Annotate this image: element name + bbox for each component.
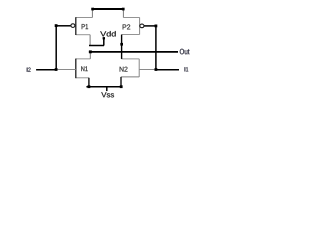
wire I2 input <box>36 69 57 71</box>
wire N2 source stem <box>120 77 122 87</box>
transistor P1 gate-side edge <box>75 17 77 35</box>
junction dot I1 <box>155 68 158 71</box>
P2 label <box>123 24 131 29</box>
wire N1 source stem <box>88 78 90 87</box>
wire Vdd bar <box>89 45 104 47</box>
node I1 label I-stem <box>183 67 186 71</box>
P1 label <box>82 24 88 29</box>
inversion bubble P1 <box>71 24 75 28</box>
transistor N2 drain-side edge <box>138 59 140 77</box>
node Out label <box>180 49 190 54</box>
wire Vdd stub <box>103 38 105 46</box>
junction dot top rail right <box>122 8 125 11</box>
junction dot I2 <box>55 68 58 71</box>
N1 label <box>81 66 87 71</box>
corner dot right top <box>155 25 158 28</box>
transistor P2 drain-side edge <box>139 17 141 34</box>
terminal dot Vdd <box>103 37 105 39</box>
transistor N1 body outline <box>76 59 91 78</box>
corner dot left top <box>55 24 58 27</box>
junction dot P2 drain <box>120 43 123 46</box>
node I2 label I-stem <box>26 68 29 72</box>
junction dot Vss left <box>88 85 91 88</box>
wire left vertical <box>55 26 57 70</box>
wire out rail <box>89 51 178 53</box>
wire I1 input <box>156 69 179 71</box>
P2 top stem <box>122 10 124 18</box>
wire Vss bar <box>86 86 122 88</box>
inversion bubble P2 <box>140 24 144 28</box>
transistor P1 body outline <box>76 17 93 34</box>
transistor N1 gate-side edge <box>75 59 77 79</box>
node I1 label <box>185 67 188 71</box>
wire top rail P1 to P2 <box>91 8 124 10</box>
P1 bottom stem <box>89 35 91 46</box>
Vdd label <box>100 31 115 36</box>
wire Vss stub <box>106 87 108 91</box>
transistor P2 body outline <box>122 17 140 34</box>
Vss label <box>101 92 114 97</box>
N1 gate stub <box>56 68 76 70</box>
wire right vertical <box>155 26 157 70</box>
N2 gate stub <box>139 69 156 71</box>
N1 top stem <box>89 52 91 59</box>
wire P1 gate <box>56 25 71 27</box>
P1 top stem <box>91 10 93 18</box>
wire P2 gate <box>144 25 156 27</box>
node I2 label <box>27 68 30 72</box>
junction dot top rail left <box>91 8 94 11</box>
junction dot out rail left <box>89 50 92 53</box>
junction dot Vss right <box>120 85 123 88</box>
wire P2 drain to N2 drain <box>121 35 123 59</box>
transistor N2 body outline <box>121 59 139 77</box>
N2 label <box>120 67 128 72</box>
